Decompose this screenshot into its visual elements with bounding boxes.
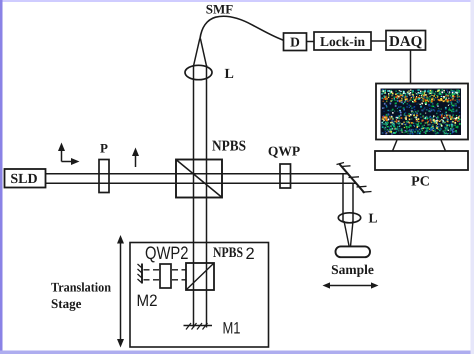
svg-text:NPBS: NPBS	[213, 245, 243, 261]
svg-text:DAQ: DAQ	[389, 34, 423, 50]
svg-text:Lock-in: Lock-in	[320, 34, 366, 49]
svg-text:PC: PC	[411, 175, 430, 190]
svg-text:Stage: Stage	[51, 296, 82, 311]
svg-text:2: 2	[246, 245, 255, 263]
svg-text:P: P	[100, 141, 108, 156]
svg-text:L: L	[369, 211, 378, 226]
svg-text:D: D	[290, 35, 300, 50]
svg-text:QWP2: QWP2	[145, 243, 189, 263]
svg-text:M2: M2	[137, 292, 158, 310]
svg-text:SMF: SMF	[206, 2, 234, 17]
svg-text:QWP: QWP	[268, 144, 300, 159]
svg-text:Translation: Translation	[51, 280, 112, 295]
svg-text:L: L	[225, 67, 234, 82]
svg-text:M1: M1	[223, 320, 241, 338]
svg-text:NPBS: NPBS	[212, 139, 246, 155]
svg-text:Sample: Sample	[331, 262, 374, 277]
svg-text:SLD: SLD	[10, 172, 37, 187]
